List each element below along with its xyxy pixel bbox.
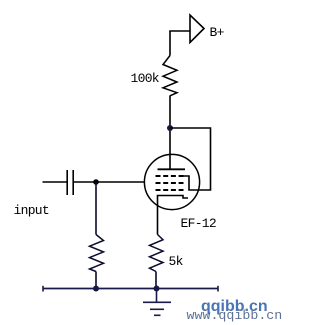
wire: C1 to control grid [73, 181, 145, 183]
svg-text:input: input [14, 203, 50, 218]
bus right end tick [217, 286, 219, 292]
node: grid junction [93, 179, 99, 185]
ground bus [43, 288, 218, 290]
node: plate/screen junction [167, 125, 173, 131]
svg-text:5k: 5k [169, 254, 184, 269]
tube V1 envelope [144, 154, 199, 209]
node: R2 to bus [93, 286, 99, 292]
wire: screen grid strap to plate node [170, 128, 211, 190]
svg-text:EF-12: EF-12 [181, 216, 217, 231]
capacitor C1 plate left [66, 170, 68, 195]
resistor R2 grid leak [90, 235, 104, 272]
svg-text:B+: B+ [210, 25, 225, 40]
wire: input stub to C1 [43, 181, 68, 183]
wire: plate node up to B+ [170, 31, 190, 56]
svg-text:www.qqibb.cn: www.qqibb.cn [187, 308, 283, 323]
grid g3 (dashed) [156, 175, 184, 177]
node: cathode to bus [154, 286, 160, 292]
tube cathode [158, 196, 189, 235]
capacitor C1 plate right [72, 170, 74, 195]
ground symbol [143, 289, 171, 316]
B+ terminal triangle [190, 15, 204, 43]
wire: R3 to ground bus [155, 272, 157, 289]
bus left end tick [42, 286, 44, 292]
resistor R1 100k [163, 56, 177, 96]
grid g1 (dashed) [156, 189, 184, 191]
wire: R1 bottom to tube plate [169, 96, 171, 170]
resistor R3 5k [150, 235, 164, 272]
svg-text:100k: 100k [131, 71, 160, 86]
grid g2 control (dashed) [156, 182, 184, 184]
wire: grid node down to R2 [95, 182, 97, 235]
tube plate [158, 168, 186, 170]
wire: R2 to ground bus [95, 272, 97, 289]
